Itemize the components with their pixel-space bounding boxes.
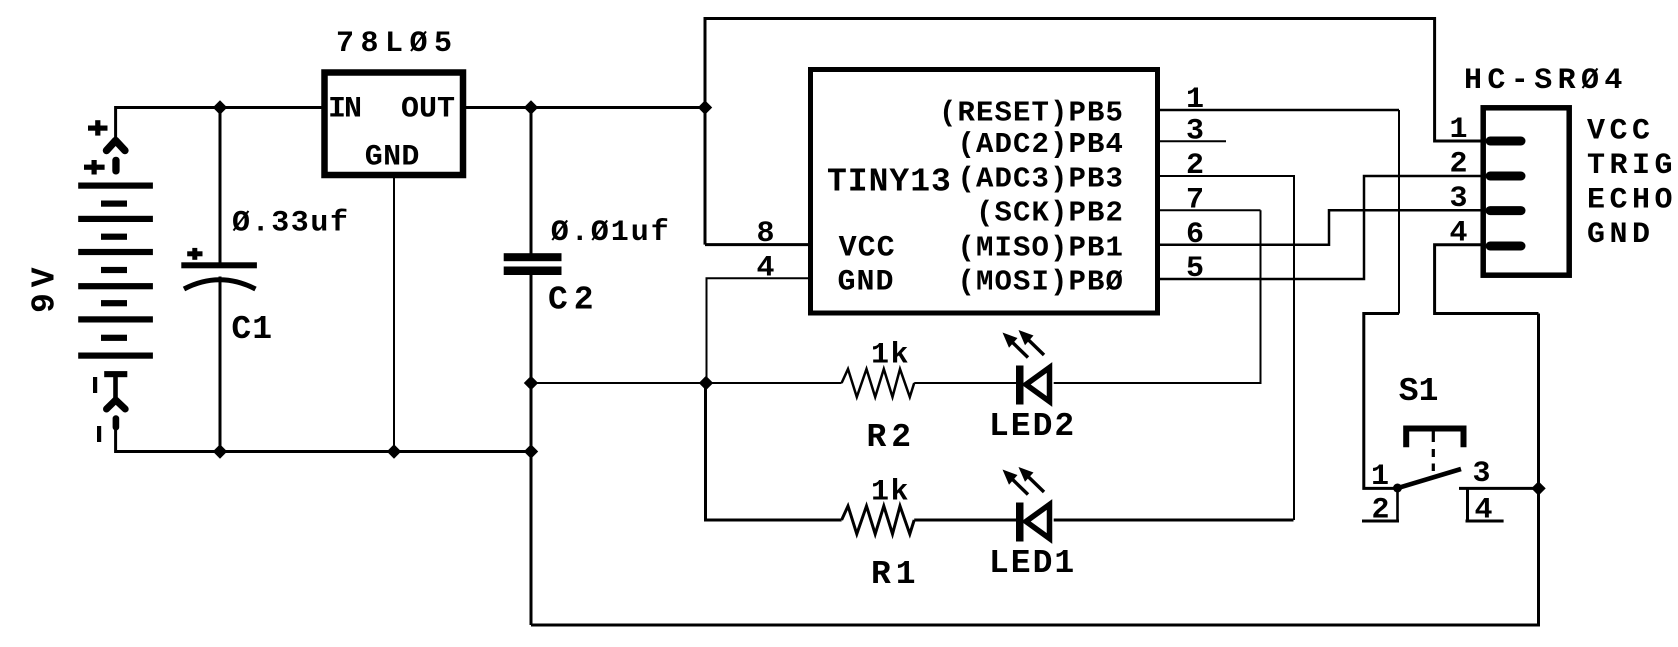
wire pin3 stub bbox=[1160, 140, 1226, 142]
battery B1 bbox=[78, 120, 153, 442]
node VIN at C1 top bbox=[213, 100, 227, 114]
node GND at trunk bbox=[524, 444, 538, 458]
voltage regulator U2 78L05 box bbox=[325, 73, 464, 176]
wire battery+ to 78L05 IN (rail VIN) bbox=[116, 108, 322, 140]
LED LED1 bbox=[1003, 467, 1050, 542]
node GND net at R feed bbox=[699, 376, 713, 390]
svg-text:1k: 1k bbox=[871, 476, 910, 510]
resistor R1 bbox=[842, 506, 915, 534]
wire S1 left branch bbox=[1364, 314, 1399, 489]
svg-text:9V: 9V bbox=[27, 261, 64, 313]
svg-text:3: 3 bbox=[1449, 182, 1467, 216]
connector J1 HC-SR04 bbox=[1483, 108, 1569, 275]
svg-text:C2: C2 bbox=[548, 282, 600, 319]
svg-text:LED1: LED1 bbox=[989, 545, 1076, 582]
svg-text:(RESET)PB5: (RESET)PB5 bbox=[939, 97, 1124, 130]
wire 78L05 OUT rail bbox=[466, 106, 705, 109]
wire pin5 PB0 to HC TRIG bbox=[1160, 176, 1482, 279]
svg-text:7: 7 bbox=[1186, 183, 1204, 217]
svg-text:(SCK)PB2: (SCK)PB2 bbox=[976, 197, 1124, 230]
wire battery- to ground rail bbox=[116, 429, 531, 452]
svg-text:(MOSI)PBØ: (MOSI)PBØ bbox=[957, 266, 1124, 299]
svg-text:2: 2 bbox=[1371, 494, 1389, 528]
svg-text:4: 4 bbox=[756, 252, 774, 286]
svg-text:LED2: LED2 bbox=[989, 408, 1076, 445]
svg-text:3: 3 bbox=[1186, 114, 1204, 148]
svg-text:HC-SRØ4: HC-SRØ4 bbox=[1464, 64, 1628, 98]
svg-text:1: 1 bbox=[1449, 113, 1467, 147]
svg-text:8: 8 bbox=[756, 217, 774, 251]
svg-text:IN: IN bbox=[328, 93, 361, 127]
node GND at 78L05 GND bbox=[387, 444, 401, 458]
IC U1 TINY13 box bbox=[811, 70, 1158, 314]
wire TINY13 VCC pin 8 bbox=[705, 243, 812, 246]
svg-text:TINY13: TINY13 bbox=[827, 164, 952, 201]
wire TINY13 GND pin 4 bbox=[707, 278, 813, 383]
svg-text:OUT: OUT bbox=[401, 93, 455, 127]
node S1 pin3 to GND trunk bbox=[1531, 481, 1545, 495]
wire R2 to LED2 bbox=[914, 382, 1016, 384]
svg-text:R1: R1 bbox=[871, 556, 921, 593]
svg-text:1: 1 bbox=[1371, 460, 1389, 494]
svg-text:S1: S1 bbox=[1399, 373, 1439, 410]
wire GND to R2 row bbox=[531, 382, 842, 384]
svg-text:4: 4 bbox=[1474, 494, 1492, 528]
svg-text:78LØ5: 78LØ5 bbox=[336, 27, 459, 61]
wire 78L05 GND pin down bbox=[393, 178, 395, 452]
resistor R2 bbox=[842, 369, 915, 397]
svg-text:1: 1 bbox=[1186, 83, 1204, 117]
svg-text:(ADC2)PB4: (ADC2)PB4 bbox=[957, 128, 1124, 161]
wire pin6 PB1 to HC ECHO bbox=[1160, 210, 1482, 245]
svg-text:C1: C1 bbox=[231, 311, 273, 348]
svg-text:Ø.Ø1uf: Ø.Ø1uf bbox=[551, 216, 671, 250]
node GND net at C2 bbox=[524, 376, 538, 390]
wire right trunk and bottom GND rail bbox=[531, 314, 1539, 626]
svg-text:1k: 1k bbox=[871, 339, 910, 373]
capacitor C2 bbox=[504, 108, 562, 626]
svg-text:5: 5 bbox=[1186, 252, 1204, 286]
svg-text:TRIG: TRIG bbox=[1587, 149, 1677, 183]
wire pin7 PB2 bbox=[1160, 209, 1261, 211]
wire GND down to R1 row bbox=[706, 383, 842, 520]
svg-text:VCC: VCC bbox=[1587, 115, 1655, 149]
wire LED1 to PB3 riser bbox=[1054, 519, 1294, 522]
wire LED2 to PB2 riser bbox=[1054, 210, 1261, 383]
LED LED2 bbox=[1003, 330, 1050, 405]
svg-text:2: 2 bbox=[1186, 149, 1204, 183]
svg-text:6: 6 bbox=[1186, 218, 1204, 252]
wire pin2 PB3 to LED1 bbox=[1160, 176, 1294, 520]
svg-text:(MISO)PB1: (MISO)PB1 bbox=[957, 231, 1124, 264]
svg-text:GND: GND bbox=[365, 141, 420, 175]
svg-text:Ø.33uf: Ø.33uf bbox=[232, 207, 350, 241]
svg-text:ECHO: ECHO bbox=[1587, 184, 1677, 218]
node VOUT at VCC riser bbox=[698, 100, 712, 114]
svg-text:GND: GND bbox=[838, 266, 895, 300]
wire R1 to LED1 bbox=[914, 519, 1016, 522]
capacitor C1 bbox=[181, 108, 257, 452]
wire pin1 RESET to S1 bbox=[1160, 109, 1399, 112]
wire VCC riser and top rail to HC-SR04 pin1 bbox=[705, 19, 1482, 245]
node GND at C1 bottom bbox=[213, 444, 227, 458]
node VOUT at C2 top bbox=[524, 100, 538, 114]
svg-text:(ADC3)PB3: (ADC3)PB3 bbox=[957, 163, 1124, 196]
wire HC GND pin4 to S1 side bbox=[1435, 245, 1539, 314]
svg-text:2: 2 bbox=[1449, 148, 1467, 182]
switch S1 bbox=[1362, 429, 1539, 522]
svg-text:R2: R2 bbox=[867, 419, 917, 456]
svg-text:3: 3 bbox=[1472, 457, 1490, 491]
svg-text:GND: GND bbox=[1587, 218, 1655, 252]
svg-text:VCC: VCC bbox=[839, 231, 896, 265]
